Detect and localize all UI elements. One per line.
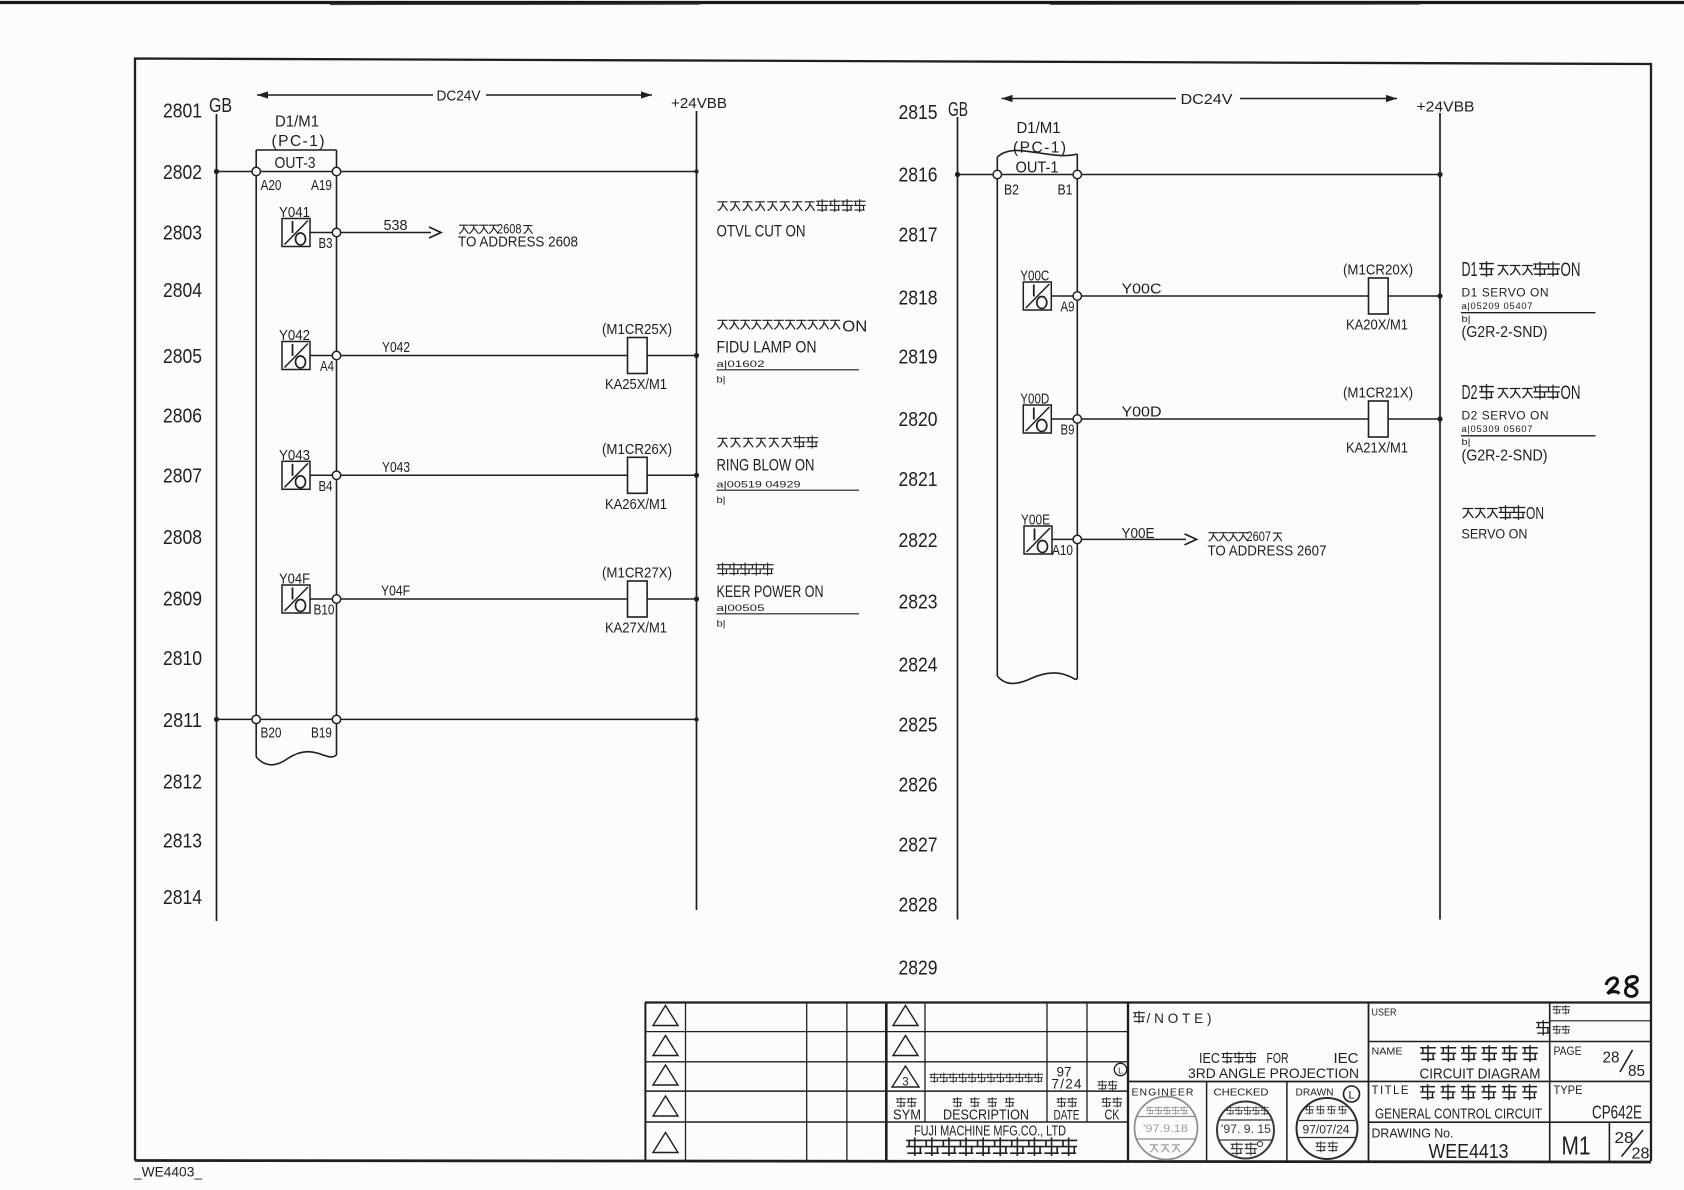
svg-text:KA20X/M1: KA20X/M1 [1346,318,1408,334]
svg-text:DC24V: DC24V [437,89,481,105]
contact Y042 [282,342,310,370]
svg-text:D2: D2 [1462,382,1478,404]
stamp drawn [1297,1098,1358,1159]
svg-text:(PC-1): (PC-1) [1013,140,1066,157]
svg-text:3RD ANGLE PROJECTION: 3RD ANGLE PROJECTION [1188,1065,1359,1081]
svg-text:2829: 2829 [899,957,938,980]
svg-text:DRAWING No.: DRAWING No. [1372,1126,1454,1141]
svg-text:GB: GB [209,95,232,117]
revision 3 CK jp [1098,1081,1106,1090]
svg-text:2812: 2812 [163,771,202,794]
svg-text:2806: 2806 [163,405,202,428]
svg-text:OTVL CUT ON: OTVL CUT ON [717,223,806,241]
svg-text:2808: 2808 [163,526,202,549]
label dono jp [1537,1021,1550,1035]
svg-text:ON: ON [842,319,867,336]
svg-text:Y041: Y041 [279,205,310,221]
svg-text:2828: 2828 [899,894,938,917]
svg-text:A9: A9 [1061,300,1075,316]
svg-text:2814: 2814 [163,886,202,909]
contact Y041 [282,219,310,247]
stamp checked [1217,1102,1274,1159]
svg-text:2810: 2810 [163,647,202,670]
svg-text:2805: 2805 [163,345,202,368]
svg-text:KA21X/M1: KA21X/M1 [1346,441,1408,457]
svg-text:2826: 2826 [899,774,938,797]
wire rung 2816 [958,174,1441,176]
svg-text:(PC-1): (PC-1) [272,133,325,150]
label seiban jp [1553,1026,1561,1034]
svg-text:A19: A19 [311,178,332,194]
svg-text:a|00519 04929: a|00519 04929 [717,480,801,491]
svg-text:TYPE: TYPE [1554,1085,1583,1097]
svg-text:A20: A20 [261,178,282,194]
svg-text:KA27X/M1: KA27X/M1 [605,621,667,637]
DC24V span arrow (left) [257,94,433,96]
svg-text:TO ADDRESS 2607: TO ADDRESS 2607 [1208,543,1327,560]
wire coil M1CR25X to bus [647,355,696,357]
svg-text:3: 3 [902,1077,908,1089]
svg-text:+24VBB: +24VBB [1417,99,1475,116]
wire rung to coil M1CR25X [341,355,628,357]
terminal A4 [332,351,340,359]
svg-text:Y00D: Y00D [1122,405,1162,421]
note address 2607 (jp) [1209,533,1218,541]
svg-text:(G2R-2-SND): (G2R-2-SND) [1462,448,1548,465]
contact Y04F [282,585,310,613]
svg-text:b|: b| [717,375,726,386]
svg-text:2807: 2807 [163,465,202,488]
header CK jp [1102,1098,1111,1107]
svg-text:2801: 2801 [163,100,202,123]
svg-text:b|: b| [717,495,726,506]
note label jp [1134,1011,1145,1023]
svg-text:ON: ON [1561,383,1581,404]
svg-text:'97. 9. 15: '97. 9. 15 [1221,1124,1271,1136]
wire 538 branch [341,232,431,234]
wire pin Y042 [310,355,333,357]
relay coil M1CR20X [1369,278,1389,314]
terminal B4 [332,471,340,479]
svg-text:D1: D1 [1462,259,1478,281]
svg-text:B4: B4 [319,479,333,495]
wire pin Y043 [310,474,333,476]
terminal B2 [993,170,1001,178]
label RING jp [718,438,727,447]
scan edge strip [0,1,1684,4]
relay coil M1CR25X [628,338,648,374]
svg-text:7/24: 7/24 [1052,1077,1082,1092]
svg-text:2803: 2803 [163,222,202,245]
svg-text:538: 538 [384,217,408,234]
svg-text:2823: 2823 [899,591,938,614]
wire rung to coil M1CR21X [1082,418,1369,420]
svg-text:Y00E: Y00E [1122,526,1155,542]
terminal B3 [332,228,340,236]
svg-text:B3: B3 [319,236,333,252]
stamp engineer (faint) [1135,1097,1198,1160]
relay coil M1CR26X [628,457,648,493]
svg-text:D1/M1: D1/M1 [275,114,319,131]
wire +24VBB bus (right) [1439,113,1441,920]
wire Y00E branch [1082,538,1187,540]
name jp circuit diagram [1421,1046,1435,1061]
svg-text:DRAWN: DRAWN [1296,1087,1334,1099]
contact Y00C [1023,282,1051,310]
terminal A10 [1073,535,1081,543]
svg-text:2811: 2811 [163,709,202,732]
wire rung 2811 [217,718,697,720]
svg-text:a|01602: a|01602 [717,359,765,370]
revision table 1 grid [644,1003,646,1162]
module block OUT-1 [996,157,998,676]
svg-text:2820: 2820 [899,408,938,431]
svg-text:Y042: Y042 [279,328,310,344]
svg-text:2822: 2822 [899,529,938,552]
svg-text:2804: 2804 [163,279,202,302]
svg-text:(G2R-2-SND): (G2R-2-SND) [1462,324,1548,341]
label servo power jp [1463,508,1473,517]
svg-text:2827: 2827 [899,834,938,857]
svg-text:CHECKED: CHECKED [1214,1087,1269,1099]
terminal A20 [252,167,260,175]
svg-text:A4: A4 [320,359,334,375]
wire coil M1CR21X to bus [1388,418,1440,420]
wire rung to coil M1CR26X [341,474,628,476]
svg-text:2818: 2818 [899,287,938,310]
svg-text:97/07/24: 97/07/24 [1303,1125,1351,1137]
svg-text:TITLE: TITLE [1372,1085,1409,1097]
junction [1437,416,1442,421]
note address 2608 (jp) [459,225,468,233]
svg-text:D1/M1: D1/M1 [1017,120,1061,137]
svg-text:RING BLOW ON: RING BLOW ON [717,457,815,475]
wire rung to coil M1CR20X [1082,295,1369,297]
svg-text:B10: B10 [314,603,335,619]
svg-text:2809: 2809 [163,588,202,611]
wire +24VBB bus (left) [696,111,698,910]
svg-text:FIDU LAMP ON: FIDU LAMP ON [717,339,817,357]
svg-text:2819: 2819 [899,346,938,369]
svg-text:A10: A10 [1052,543,1073,559]
svg-text:_WE4403_: _WE4403_ [133,1164,202,1180]
svg-text:2825: 2825 [899,714,938,737]
revision table 1 triangles [653,1006,678,1026]
svg-text:USER: USER [1372,1007,1397,1019]
contact Y00E [1024,526,1052,554]
svg-text:Y043: Y043 [382,460,410,476]
svg-text:B19: B19 [311,726,332,742]
svg-text:FUJI MACHINE MFG.CO., LTD: FUJI MACHINE MFG.CO., LTD [914,1124,1066,1140]
svg-text:(M1CR26X): (M1CR26X) [602,442,672,458]
svg-text:KA26X/M1: KA26X/M1 [605,497,667,513]
svg-text:2821: 2821 [899,468,938,491]
svg-text:28: 28 [1632,1146,1650,1163]
svg-text:SERVO ON: SERVO ON [1462,527,1528,542]
DC24V span arrow (right) [1002,98,1177,100]
wire pin Y00D [1051,418,1073,420]
user cell grid [1549,1003,1551,1162]
svg-text:b|: b| [717,619,726,630]
svg-text:Y042: Y042 [382,340,410,356]
wire pin Y00E [1052,538,1073,540]
svg-text:D2 SERVO ON: D2 SERVO ON [1462,409,1549,423]
svg-text:+24VBB: +24VBB [671,95,727,112]
header DESCRIPTION jp [953,1098,962,1107]
wire pin Y041 [310,232,333,234]
svg-text:Y00C: Y00C [1122,282,1162,298]
svg-text:OUT-3: OUT-3 [275,155,316,172]
terminal B10 [332,595,340,603]
svg-text:Y043: Y043 [279,448,310,464]
svg-text:(M1CR21X): (M1CR21X) [1343,386,1413,402]
svg-text:85: 85 [1628,1063,1645,1080]
svg-text:DESCRIPTION: DESCRIPTION [943,1108,1029,1124]
label OTVL jp [718,202,727,211]
junction [694,473,699,478]
module block OUT-3 [255,150,257,757]
svg-text:2817: 2817 [899,224,938,247]
svg-text:ON: ON [1561,260,1581,281]
svg-text:L: L [1348,1090,1354,1102]
svg-text:CIRCUIT DIAGRAM: CIRCUIT DIAGRAM [1420,1066,1541,1083]
label KEER jp [717,563,728,575]
label bunban jp [1553,1006,1561,1014]
terminal B9 [1073,415,1081,423]
svg-text:D1 SERVO ON: D1 SERVO ON [1462,286,1549,300]
svg-text:a|00505: a|00505 [717,603,765,614]
title jp general control circuit [1421,1085,1434,1100]
svg-text:DATE: DATE [1054,1108,1080,1123]
contact Y043 [282,461,310,489]
title block outer top line [645,1001,1651,1003]
wire rung 2802 [217,171,697,173]
wire coil M1CR27X to bus [647,598,696,600]
svg-text:2815: 2815 [899,101,938,124]
circled L drawn [1344,1086,1360,1102]
svg-text:CP642E: CP642E [1592,1103,1642,1123]
svg-text:L: L [1118,1066,1123,1076]
svg-text:WEE4413: WEE4413 [1429,1140,1509,1163]
revision table 2 triangles [893,1006,918,1026]
svg-text:NAME: NAME [1372,1046,1403,1058]
header SYM jp [897,1098,906,1107]
revision table 2 grid [885,1003,888,1162]
svg-text:28: 28 [1603,1050,1620,1067]
svg-text:a|05209 05407: a|05209 05407 [1462,301,1533,312]
svg-text:Y04F: Y04F [279,572,310,588]
stamp cells grid [1206,1082,1208,1162]
svg-text:KA25X/M1: KA25X/M1 [605,377,667,393]
svg-text:B1: B1 [1058,183,1073,199]
terminal B20 [252,715,260,723]
terminal A19 [332,167,340,175]
junction [1437,293,1442,298]
svg-text:B9: B9 [1061,423,1075,439]
svg-text:TO ADDRESS 2608: TO ADDRESS 2608 [458,234,578,251]
wire pin Y04F [310,598,333,600]
svg-text:DC24V: DC24V [1181,92,1233,108]
svg-text:PAGE: PAGE [1554,1046,1582,1058]
relay coil M1CR21X [1369,401,1389,437]
wire pin Y00C [1051,295,1073,297]
svg-text:2824: 2824 [899,654,938,677]
terminal B1 [1073,170,1081,178]
svg-text:Y00E: Y00E [1021,513,1050,529]
terminal B19 [332,715,340,723]
title block bottom line [135,1161,1651,1163]
terminal A9 [1073,292,1081,300]
svg-text:2816: 2816 [899,164,938,187]
handwritten page number 28 [1606,978,1620,994]
revision 3 triangle [892,1066,919,1087]
svg-text:a|05309 05607: a|05309 05607 [1462,424,1533,435]
relay coil M1CR27X [628,581,648,617]
svg-text:Y00C: Y00C [1020,269,1049,285]
wire GB bus (left) [216,114,218,921]
svg-text:SYM: SYM [893,1108,921,1124]
wire GB bus (right) [957,117,959,920]
svg-text:(M1CR20X): (M1CR20X) [1343,263,1413,279]
revision 3 description jp [930,1073,938,1082]
wire rung to coil M1CR27X [341,598,628,600]
svg-text:b|: b| [1462,437,1471,448]
note cell [1127,1003,1129,1162]
svg-text:(M1CR27X): (M1CR27X) [602,566,672,582]
circled L small [1114,1063,1126,1075]
svg-text:Y00D: Y00D [1020,392,1049,408]
svg-text:2813: 2813 [163,830,202,853]
svg-text:KEER POWER ON: KEER POWER ON [717,583,824,601]
label FIDU jp [718,320,727,329]
svg-text:(M1CR25X): (M1CR25X) [602,322,672,338]
wire coil M1CR20X to bus [1388,295,1440,297]
wire coil M1CR26X to bus [647,474,696,476]
svg-text:2802: 2802 [163,161,202,184]
contact Y00D [1023,405,1051,433]
header DATE jp [1057,1098,1066,1107]
junction [694,596,699,601]
svg-text:B20: B20 [261,726,282,742]
svg-text:'97.9.18: '97.9.18 [1143,1123,1188,1135]
svg-text:B2: B2 [1004,183,1019,199]
svg-text:GENERAL CONTROL CIRCUIT: GENERAL CONTROL CIRCUIT [1375,1106,1542,1123]
svg-text:Y04F: Y04F [381,584,410,600]
svg-text:ON: ON [1526,503,1544,523]
junction [694,353,699,358]
svg-text:CK: CK [1105,1108,1120,1124]
svg-text:M1: M1 [1562,1131,1591,1161]
